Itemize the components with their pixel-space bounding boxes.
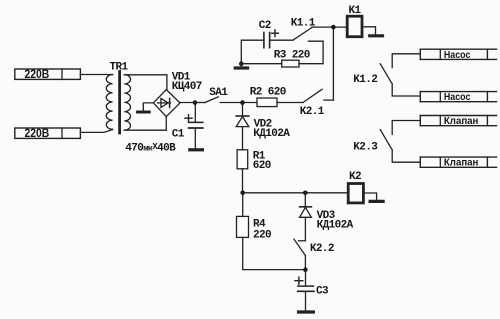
ground at K2 bbox=[370, 200, 383, 203]
contact K1.2 bbox=[353, 54, 420, 96]
ground under node C bbox=[235, 64, 247, 68]
terminal Насос 1 bbox=[420, 49, 496, 61]
svg-text:SA1: SA1 bbox=[209, 87, 228, 99]
terminal X1 220В bbox=[15, 69, 81, 81]
capacitor C3 bbox=[295, 270, 329, 311]
wire bridge to node A bbox=[180, 102, 195, 104]
svg-text:Клапан: Клапан bbox=[444, 115, 479, 127]
svg-text:K2: K2 bbox=[349, 171, 361, 183]
switch SA1 bbox=[195, 87, 243, 102]
ground at bridge left bbox=[138, 103, 154, 112]
wire TR1 secondary top to bridge bbox=[124, 75, 167, 90]
transformer TR1 bbox=[106, 61, 130, 133]
svg-text:C1: C1 bbox=[172, 129, 185, 141]
diode VD3 bbox=[300, 193, 354, 241]
svg-text:Насос: Насос bbox=[444, 49, 471, 61]
contact K2.1 bbox=[300, 89, 334, 118]
node G junction bbox=[303, 267, 308, 272]
contact K1.1 bbox=[270, 17, 324, 41]
wire node E to K2 bbox=[243, 192, 348, 194]
relay coil K1 bbox=[347, 5, 362, 37]
svg-text:K2.3: K2.3 bbox=[353, 142, 378, 154]
svg-text:K2.2: K2.2 bbox=[310, 243, 334, 255]
node D junction bbox=[331, 25, 336, 30]
svg-text:K1: K1 bbox=[349, 5, 362, 17]
svg-text:TR1: TR1 bbox=[110, 61, 129, 73]
svg-text:КД102А: КД102А bbox=[253, 128, 290, 140]
svg-text:220: 220 bbox=[253, 229, 271, 241]
contact K2.3 bbox=[353, 121, 420, 163]
node E junction bbox=[240, 191, 245, 196]
wire K1 to ground bbox=[362, 27, 376, 35]
resistor R1 bbox=[237, 150, 271, 193]
ground under C3 bbox=[299, 310, 314, 313]
svg-text:620: 620 bbox=[253, 160, 271, 172]
svg-text:C2: C2 bbox=[259, 20, 271, 32]
terminal X2 220В bbox=[15, 128, 81, 140]
node C junction bbox=[239, 61, 244, 66]
svg-text:R3 220: R3 220 bbox=[274, 50, 310, 62]
svg-text:K1.2: K1.2 bbox=[353, 74, 377, 86]
wire X2 to TR1 primary bottom bbox=[80, 130, 112, 133]
svg-text:K2.1: K2.1 bbox=[300, 106, 325, 118]
svg-text:Насос: Насос bbox=[444, 91, 471, 103]
svg-text:КД102А: КД102А bbox=[317, 219, 354, 231]
svg-text:220В: 220В bbox=[25, 128, 50, 140]
wire K2.1 up to K1 node bbox=[332, 27, 334, 100]
resistor R3 bbox=[241, 41, 323, 67]
terminal Клапан 1 bbox=[420, 115, 496, 127]
ground under C1 bbox=[190, 148, 203, 151]
svg-text:470мкХ40В: 470мкХ40В bbox=[125, 142, 176, 155]
svg-text:Клапан: Клапан bbox=[444, 157, 479, 169]
relay coil K2 bbox=[348, 171, 363, 203]
contact K2.2 bbox=[294, 239, 334, 270]
capacitor C2 bbox=[259, 20, 279, 48]
wire C2 left down to node C bbox=[241, 40, 264, 64]
node A junction bbox=[193, 100, 198, 105]
wire TR1 secondary bottom to bridge bbox=[124, 117, 166, 130]
ground at K1 bbox=[370, 34, 383, 37]
svg-text:220В: 220В bbox=[25, 69, 50, 81]
resistor R4 bbox=[237, 193, 306, 270]
diode VD2 bbox=[236, 103, 290, 150]
svg-text:C3: C3 bbox=[316, 286, 329, 298]
wire X1 to TR1 primary top bbox=[80, 74, 112, 76]
node F junction bbox=[303, 191, 308, 196]
capacitor C1 bbox=[172, 103, 203, 149]
bridge rectifier VD1 КЦ407 bbox=[153, 72, 201, 117]
svg-text:КЦ407: КЦ407 bbox=[172, 81, 202, 93]
terminal Клапан 2 bbox=[420, 157, 496, 169]
node B junction bbox=[240, 100, 245, 105]
wire K1.1 to node D bbox=[312, 26, 347, 28]
svg-text:R2 620: R2 620 bbox=[250, 87, 286, 99]
resistor R2 bbox=[243, 87, 304, 107]
terminal Насос 2 bbox=[420, 91, 496, 103]
wire K2 to ground bbox=[363, 193, 376, 200]
